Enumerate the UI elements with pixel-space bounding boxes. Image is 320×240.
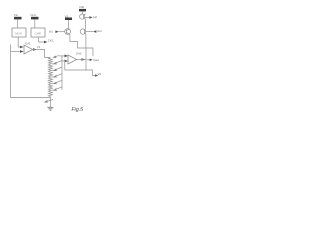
arrowhead Q1 out (89, 16, 92, 19)
wire OA1 output to ladder top (33, 50, 51, 58)
svg-text:Vdd: Vdd (79, 5, 84, 9)
wire OA2 -input stub (62, 60, 65, 62)
arrowhead OA2 output (81, 58, 85, 61)
supply bar B3 above Q3 (65, 14, 72, 20)
arrowhead box2 output (44, 41, 47, 44)
svg-text:V1: V1 (37, 45, 41, 49)
arrowhead output (90, 59, 93, 62)
resistor R2 (48, 64, 52, 70)
supply bar B4 above Q1 (79, 5, 86, 11)
tap wiper arrow t2 (50, 60, 62, 64)
op-amp OA1 (24, 42, 33, 54)
box U2 CHP (31, 28, 45, 37)
tap wiper arrow bottom (45, 99, 53, 102)
wire tap bus to OA2 +input (59, 55, 65, 57)
wire Q2 base right (86, 31, 93, 33)
wire bar B1 to box1 (17, 19, 19, 28)
tap wiper arrow t3 (50, 67, 62, 71)
transistor Q2 (80, 29, 86, 35)
tap wiper arrow top (54, 56, 59, 58)
resistor R5 (48, 84, 52, 90)
wire output node hook (86, 48, 93, 56)
tap wiper arrow t6 (50, 87, 62, 91)
ground (47, 107, 53, 110)
wire left feedback rail (11, 45, 51, 98)
arrowhead Q2 base (93, 30, 96, 33)
arrowhead into Q3 base (55, 30, 58, 33)
arrowhead into OA1 -input (20, 50, 24, 53)
supply bar B1 above left box (14, 13, 22, 19)
svg-text:Iout: Iout (97, 29, 102, 33)
wire Q1 out right (85, 16, 90, 18)
op-amp OA2 (68, 52, 82, 64)
wire box1 to OA1 +input (18, 37, 20, 47)
arrowhead into OA2 -input (65, 60, 69, 63)
wire Q1 emitter to Q2 (85, 19, 87, 28)
svg-text:CK1: CK1 (48, 39, 54, 43)
wire OA2 output (77, 59, 86, 61)
svg-text:OA2: OA2 (76, 52, 82, 56)
wire ladder bottom to ground (49, 98, 51, 108)
svg-text:OA1: OA1 (25, 42, 31, 46)
bus vertical (61, 56, 63, 90)
box U1 MUX (12, 28, 26, 37)
resistor R6 (48, 91, 52, 98)
wire Q3 emitter to output node (70, 34, 86, 48)
svg-text:Vin: Vin (14, 13, 19, 17)
wire output branch lower (86, 70, 95, 76)
svg-text:Vrf: Vrf (98, 72, 102, 76)
wire Q3 base (59, 31, 65, 33)
wire bar B4 to Q1 (81, 11, 83, 14)
wire Q2 emitter down to node (85, 34, 87, 48)
svg-text:CHP: CHP (35, 31, 41, 35)
arrowhead into OA2 +input (65, 55, 69, 58)
wire output stub (87, 59, 90, 61)
svg-text:CLK: CLK (30, 13, 36, 17)
wire OA1 -input from left rail (11, 51, 20, 53)
svg-text:Fig.5: Fig.5 (72, 107, 84, 113)
svg-text:Vout: Vout (93, 58, 99, 62)
arrowhead branch output (95, 74, 98, 77)
arrowhead into OA1 +input (20, 46, 24, 49)
svg-text:MUX: MUX (15, 31, 22, 35)
resistor R3 (48, 71, 52, 77)
resistor R4 (48, 77, 52, 83)
wire bar B2 to box2 (34, 19, 36, 28)
tap wiper arrow t5 (50, 80, 62, 84)
arrowhead OA1 output (33, 48, 37, 51)
transistor Q1 (80, 14, 86, 20)
wire box2 output (39, 37, 44, 42)
svg-text:Ib1: Ib1 (49, 29, 53, 33)
wire feedback loop under OA2 (65, 48, 86, 70)
wire bar B3 to Q3 (68, 20, 70, 29)
svg-text:Iref: Iref (93, 15, 97, 19)
tap wiper arrow t4 (50, 74, 62, 78)
supply bar B2 above right box (30, 13, 38, 19)
transistor Q3 (65, 29, 71, 35)
resistor R1 (48, 58, 52, 64)
